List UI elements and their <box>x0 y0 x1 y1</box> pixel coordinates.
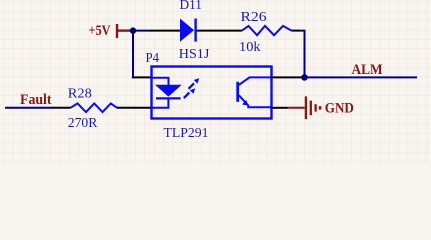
resistor R26 <box>242 26 292 35</box>
svg-text:Fault: Fault <box>20 92 52 108</box>
resistor R26 right lead <box>292 30 300 32</box>
diode D11 pin 1 (anode lead) <box>150 30 181 32</box>
LED anode link inside box <box>152 78 169 85</box>
ground bar 1 <box>305 96 307 119</box>
junction node ALM <box>301 74 308 81</box>
wire +5V junction down to opto pin1 <box>132 31 134 78</box>
resistor R28 <box>71 103 118 112</box>
svg-text:GND: GND <box>325 100 354 116</box>
ground bar 4 <box>319 106 322 109</box>
opto pin 3 (emitter lead) <box>272 107 288 109</box>
svg-text:R26: R26 <box>241 9 267 24</box>
svg-text:P4: P4 <box>146 50 160 65</box>
resistor R28 left lead <box>51 107 71 109</box>
resistor R28 right lead / opto pin 2 <box>117 107 152 109</box>
power port GND stub <box>288 107 305 109</box>
wire R26 down to ALM node <box>299 31 305 78</box>
svg-text:+5V: +5V <box>89 23 111 39</box>
emitter arrowhead <box>242 100 248 106</box>
LED triangle <box>155 85 182 97</box>
svg-text:10k: 10k <box>239 39 261 54</box>
opto P4 pin 1 (anode) <box>132 76 152 78</box>
power port +5V <box>117 24 131 38</box>
light arrow upper <box>188 78 200 90</box>
opto-coupler U box P4 <box>152 67 272 119</box>
svg-text:R28: R28 <box>68 86 92 101</box>
phototransistor emitter <box>239 95 272 107</box>
wire Fault net <box>5 107 51 109</box>
diode D11 pin 2 (cathode lead) <box>197 30 243 32</box>
LED cathode bar <box>156 97 181 99</box>
svg-text:TLP291: TLP291 <box>164 125 209 140</box>
svg-text:270R: 270R <box>68 115 98 130</box>
LED cathode link inside box <box>152 98 169 107</box>
phototransistor collector <box>239 77 272 85</box>
junction node at +5V <box>130 27 136 33</box>
light arrow lower <box>183 88 195 99</box>
wire junction to diode <box>133 30 150 32</box>
wire ALM <box>305 76 418 78</box>
svg-text:D11: D11 <box>180 0 202 12</box>
svg-text:ALM: ALM <box>352 62 383 78</box>
diode D11 <box>180 19 196 42</box>
opto pin 4 (collector lead) <box>272 76 303 78</box>
ground bar 2 <box>310 101 312 116</box>
phototransistor base bar <box>236 82 239 102</box>
ground bar 3 <box>314 104 316 111</box>
svg-text:HS1J: HS1J <box>179 46 210 61</box>
